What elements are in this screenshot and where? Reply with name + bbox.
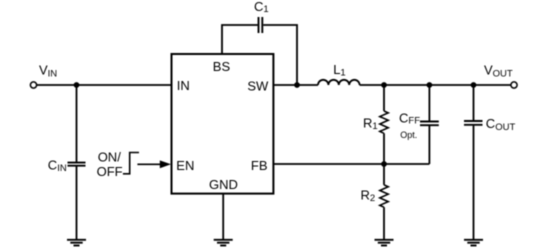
svg-text:R1: R1 [363, 115, 378, 131]
svg-text:L1: L1 [333, 62, 346, 79]
svg-text:VOUT: VOUT [484, 62, 513, 79]
svg-text:CIN: CIN [48, 157, 67, 174]
svg-text:COUT: COUT [486, 116, 516, 133]
svg-text:R2: R2 [361, 187, 376, 204]
svg-text:ON/: ON/ [98, 149, 122, 164]
svg-text:GND: GND [209, 177, 238, 192]
svg-text:IN: IN [177, 78, 190, 93]
svg-text:BS: BS [213, 59, 231, 74]
svg-text:Opt.: Opt. [400, 130, 417, 140]
svg-text:FB: FB [251, 158, 268, 173]
svg-text:OFF: OFF [97, 164, 123, 179]
svg-text:EN: EN [176, 158, 194, 173]
svg-text:C1: C1 [254, 0, 269, 15]
svg-text:VIN: VIN [39, 63, 57, 80]
svg-text:SW: SW [247, 79, 269, 94]
svg-text:CFF: CFF [399, 111, 420, 127]
